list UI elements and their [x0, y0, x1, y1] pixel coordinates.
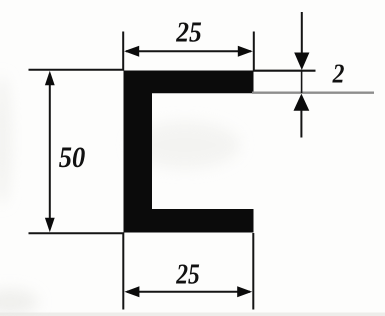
dimension 2 (right): top extension line — [254, 70, 316, 72]
dimension 25 (top): left extension line — [122, 32, 124, 71]
dimension 25 (top): left arrowhead — [124, 46, 139, 57]
dimension 25 (top): right extension line — [253, 32, 255, 71]
svg-text:2: 2 — [332, 59, 345, 89]
dimension 25 (bottom): left arrowhead — [124, 286, 139, 297]
bottom edge scan smudge — [0, 313, 385, 316]
dimension 25 (top): right arrowhead — [238, 46, 253, 57]
dimension 50 (left): dimension line — [49, 74, 51, 229]
dimension 50 (left): up arrowhead — [45, 71, 55, 86]
dimension 2 (right): bottom extension line (gray) — [252, 91, 374, 93]
dimension 25 (bottom): right extension line — [252, 233, 254, 310]
svg-text:25: 25 — [175, 17, 201, 49]
svg-text:50: 50 — [59, 141, 86, 174]
C-channel profile — [124, 71, 254, 233]
dimension 25 (top): dimension line — [126, 50, 251, 52]
dimension 25 (bottom): dimension line — [127, 291, 250, 293]
faint scan blotch center — [130, 121, 240, 169]
svg-text:25: 25 — [175, 260, 199, 291]
dimension 50 (left): bottom extension line — [29, 232, 124, 234]
dimension 50 (left): top extension line — [29, 69, 124, 71]
dimension 2 (right): up arrowhead — [294, 94, 310, 111]
dimension 2 (right): lower stem — [300, 110, 302, 138]
dimension 2 (right): connector line between faces — [301, 70, 303, 93]
dimension 2 (right): upper stem — [301, 12, 303, 55]
dimension 2 (right): down arrowhead — [294, 53, 309, 71]
faint scan blotch left edge — [0, 75, 11, 205]
faint scan blotch bottom-left — [0, 289, 38, 315]
dimension 50 (left): down arrowhead — [45, 218, 55, 233]
dimension 25 (bottom): left extension line — [122, 233, 124, 310]
dimension 25 (bottom): right arrowhead — [237, 286, 252, 297]
